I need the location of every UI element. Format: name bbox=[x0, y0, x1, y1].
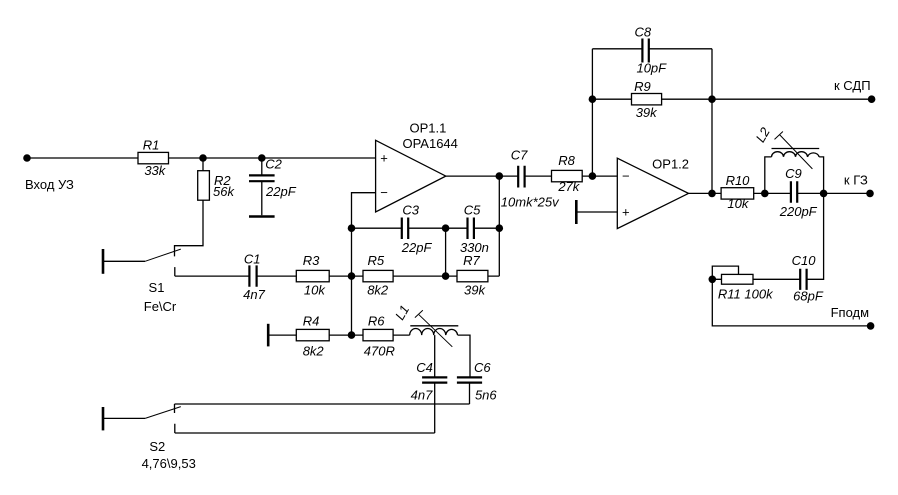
svg-text:C2: C2 bbox=[265, 157, 282, 172]
svg-text:39k: 39k bbox=[636, 105, 658, 120]
svg-text:−: − bbox=[380, 185, 388, 200]
svg-text:4n7: 4n7 bbox=[243, 287, 265, 302]
svg-text:R7: R7 bbox=[463, 253, 480, 268]
svg-text:5n6: 5n6 bbox=[475, 388, 497, 403]
svg-text:C5: C5 bbox=[464, 203, 481, 218]
svg-text:8k2: 8k2 bbox=[367, 283, 389, 298]
svg-text:C4: C4 bbox=[416, 360, 433, 375]
svg-text:−: − bbox=[622, 169, 630, 184]
svg-text:10k: 10k bbox=[727, 196, 749, 211]
svg-text:+: + bbox=[380, 151, 388, 166]
svg-text:8k2: 8k2 bbox=[303, 344, 325, 359]
svg-text:C10: C10 bbox=[792, 253, 817, 268]
svg-text:S1: S1 bbox=[149, 280, 165, 295]
svg-text:4n7: 4n7 bbox=[411, 388, 433, 403]
svg-text:Fподм: Fподм bbox=[831, 305, 870, 320]
svg-text:470R: 470R bbox=[364, 344, 395, 359]
svg-text:22pF: 22pF bbox=[265, 184, 297, 199]
svg-text:R3: R3 bbox=[303, 253, 320, 268]
svg-text:22pF: 22pF bbox=[401, 240, 433, 255]
svg-text:R6: R6 bbox=[368, 314, 385, 329]
svg-text:68pF: 68pF bbox=[793, 289, 824, 304]
svg-text:4,76\9,53: 4,76\9,53 bbox=[142, 456, 196, 471]
svg-text:C9: C9 bbox=[785, 166, 802, 181]
svg-text:R11 100k: R11 100k bbox=[718, 287, 774, 302]
svg-text:+: + bbox=[622, 204, 630, 219]
svg-text:56k: 56k bbox=[213, 184, 235, 199]
svg-text:R10: R10 bbox=[726, 173, 751, 188]
svg-text:10k: 10k bbox=[304, 283, 326, 298]
svg-text:R9: R9 bbox=[634, 79, 651, 94]
svg-text:C7: C7 bbox=[511, 148, 528, 163]
svg-text:C1: C1 bbox=[244, 252, 261, 267]
svg-text:10pF: 10pF bbox=[636, 61, 667, 76]
svg-text:R4: R4 bbox=[303, 314, 320, 329]
svg-text:C6: C6 bbox=[474, 360, 491, 375]
svg-text:к ГЗ: к ГЗ bbox=[844, 173, 868, 188]
svg-text:Вход УЗ: Вход УЗ bbox=[25, 177, 74, 192]
svg-text:10mk*25v: 10mk*25v bbox=[501, 195, 560, 210]
svg-text:39k: 39k bbox=[464, 283, 486, 298]
svg-text:C3: C3 bbox=[402, 203, 419, 218]
svg-text:33k: 33k bbox=[144, 163, 166, 178]
svg-text:OPA1644: OPA1644 bbox=[402, 136, 457, 151]
svg-text:27k: 27k bbox=[557, 179, 580, 194]
svg-text:R5: R5 bbox=[367, 253, 384, 268]
svg-text:OP1.1: OP1.1 bbox=[409, 121, 446, 136]
svg-text:220pF: 220pF bbox=[779, 204, 818, 219]
svg-text:Fe\Cr: Fe\Cr bbox=[144, 299, 177, 314]
svg-text:R8: R8 bbox=[558, 153, 575, 168]
svg-text:R1: R1 bbox=[143, 138, 160, 153]
svg-text:C8: C8 bbox=[634, 24, 651, 39]
svg-text:OP1.2: OP1.2 bbox=[652, 156, 689, 171]
svg-text:S2: S2 bbox=[149, 439, 165, 454]
svg-text:к СДП: к СДП bbox=[834, 78, 871, 93]
